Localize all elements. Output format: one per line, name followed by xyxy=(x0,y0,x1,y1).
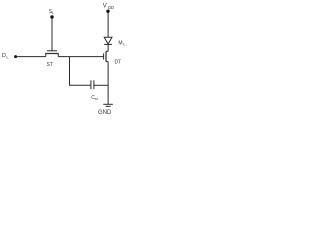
svg-text:D: D xyxy=(2,53,6,59)
svg-text:DD: DD xyxy=(108,5,114,10)
svg-text:V: V xyxy=(103,3,107,9)
svg-text:L: L xyxy=(52,11,54,15)
svg-text:M: M xyxy=(118,40,122,46)
svg-text:DT: DT xyxy=(115,60,122,66)
svg-text:L: L xyxy=(6,54,9,59)
svg-text:GND: GND xyxy=(98,110,112,116)
svg-text:ST: ST xyxy=(47,62,53,68)
svg-text:L: L xyxy=(123,42,125,46)
svg-text:st: st xyxy=(95,97,98,101)
